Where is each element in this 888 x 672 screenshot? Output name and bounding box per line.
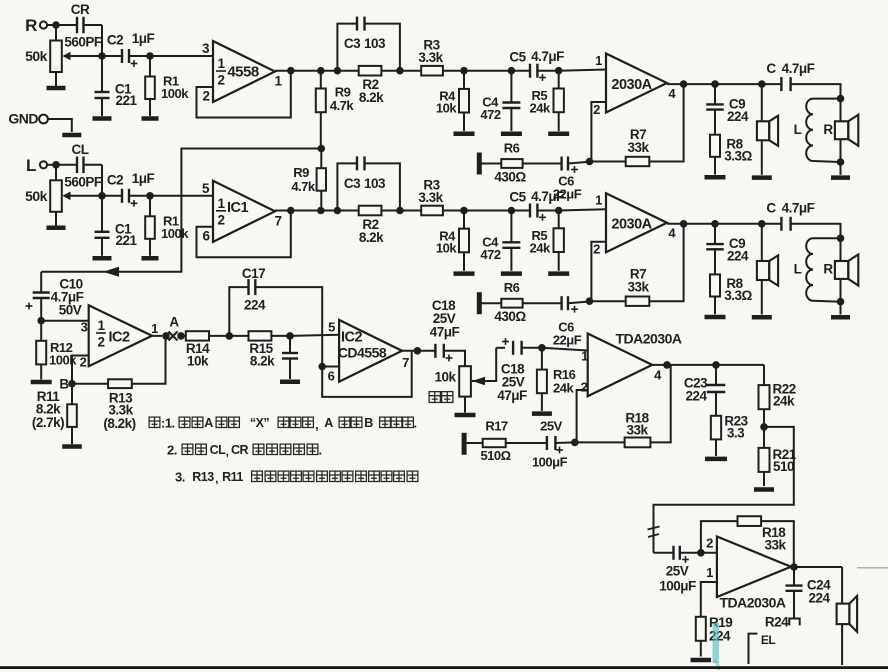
svg-text:“X”: “X”: [250, 416, 270, 430]
svg-text:47μF: 47μF: [497, 388, 527, 403]
svg-text:CL: CL: [210, 443, 227, 457]
svg-text:.: .: [318, 443, 321, 458]
svg-text:C2: C2: [107, 33, 123, 48]
svg-text:24k: 24k: [529, 101, 550, 116]
svg-text:50V: 50V: [59, 303, 82, 318]
svg-text:1: 1: [581, 349, 588, 364]
svg-text:1: 1: [97, 318, 105, 333]
svg-text:24k: 24k: [773, 394, 795, 409]
svg-text:1: 1: [706, 565, 713, 580]
svg-text:L: L: [26, 156, 36, 175]
svg-text:100k: 100k: [161, 86, 189, 101]
svg-text:2: 2: [217, 73, 224, 88]
svg-text:C5: C5: [509, 50, 526, 65]
svg-text:R: R: [823, 122, 833, 137]
svg-text:C: C: [766, 201, 776, 216]
svg-text:1μF: 1μF: [132, 171, 155, 186]
svg-text:,: ,: [226, 445, 229, 459]
svg-text:R: R: [25, 16, 37, 35]
svg-text:24k: 24k: [553, 381, 574, 396]
svg-text:1: 1: [217, 196, 225, 211]
svg-text:33k: 33k: [765, 538, 787, 553]
svg-text:3.3k: 3.3k: [418, 190, 443, 205]
svg-text:EL: EL: [761, 633, 776, 647]
svg-text:4.7k: 4.7k: [291, 179, 316, 194]
svg-text:25V: 25V: [666, 564, 689, 579]
svg-text:4.7μF: 4.7μF: [782, 201, 815, 216]
svg-text:CL: CL: [72, 142, 89, 157]
svg-text:430Ω: 430Ω: [494, 170, 526, 185]
svg-text:R13: R13: [192, 470, 214, 484]
svg-text:24k: 24k: [529, 240, 550, 255]
svg-text:3.3Ω: 3.3Ω: [724, 288, 752, 303]
svg-text:4.7μF: 4.7μF: [531, 189, 564, 204]
svg-text:25V: 25V: [540, 419, 562, 434]
svg-text:103: 103: [364, 36, 386, 51]
svg-text:R11: R11: [222, 470, 243, 484]
svg-text:B: B: [59, 377, 69, 392]
svg-text:5: 5: [202, 181, 210, 196]
svg-text:C3: C3: [344, 36, 361, 51]
svg-text:IC2: IC2: [108, 330, 130, 346]
svg-text:C3: C3: [344, 176, 361, 191]
svg-text:472: 472: [480, 107, 500, 122]
svg-text:(8.2k): (8.2k): [103, 416, 135, 431]
svg-text:TDA2030A: TDA2030A: [719, 595, 785, 611]
svg-text:224: 224: [685, 389, 707, 404]
svg-text:TDA2030A: TDA2030A: [615, 331, 681, 347]
svg-text:4.7μF: 4.7μF: [531, 49, 564, 64]
svg-text:3: 3: [202, 41, 210, 56]
svg-text:10k: 10k: [434, 370, 456, 385]
svg-text:10k: 10k: [436, 240, 457, 255]
svg-text:224: 224: [727, 109, 749, 124]
svg-text:2030A: 2030A: [611, 217, 652, 233]
svg-text:CR: CR: [231, 443, 249, 457]
svg-text:1: 1: [595, 53, 602, 68]
svg-text:3: 3: [81, 320, 88, 335]
svg-text:1: 1: [595, 193, 602, 208]
svg-text:,: ,: [315, 417, 318, 432]
svg-text:47μF: 47μF: [430, 325, 460, 340]
svg-text:8.2k: 8.2k: [250, 354, 275, 369]
svg-text:A: A: [324, 416, 333, 430]
svg-text:R9: R9: [293, 165, 309, 180]
svg-text:472: 472: [480, 247, 500, 262]
svg-text:C: C: [766, 61, 776, 76]
svg-text:2: 2: [581, 380, 588, 395]
svg-text:2: 2: [202, 89, 209, 104]
svg-text:(2.7k): (2.7k): [32, 415, 64, 430]
svg-text:4.7k: 4.7k: [330, 98, 355, 113]
svg-text:2: 2: [217, 212, 224, 227]
svg-text:L: L: [794, 122, 802, 137]
svg-text:100k: 100k: [161, 226, 189, 241]
svg-text:1: 1: [151, 321, 158, 336]
svg-text:100μF: 100μF: [532, 455, 568, 470]
svg-text:100μF: 100μF: [659, 579, 696, 594]
svg-text:8.2k: 8.2k: [359, 90, 384, 105]
svg-text:33k: 33k: [627, 140, 649, 155]
svg-text:R17: R17: [485, 419, 508, 434]
svg-text:R6: R6: [504, 141, 520, 156]
svg-text:.: .: [413, 416, 416, 431]
svg-text:430Ω: 430Ω: [494, 309, 526, 324]
svg-text:33k: 33k: [627, 280, 649, 295]
svg-text:560PF: 560PF: [64, 174, 102, 189]
svg-text:C17: C17: [242, 266, 265, 281]
svg-text:6: 6: [328, 369, 335, 384]
svg-text:2: 2: [593, 102, 600, 117]
svg-text:224: 224: [808, 591, 830, 606]
svg-text:CD4558: CD4558: [338, 345, 387, 361]
svg-text:224: 224: [727, 249, 749, 264]
svg-text:3.3: 3.3: [727, 426, 745, 441]
svg-text::1.: :1.: [161, 416, 175, 431]
svg-text:1: 1: [217, 56, 225, 71]
svg-text:510Ω: 510Ω: [480, 448, 510, 463]
svg-text:IC2: IC2: [341, 330, 363, 346]
svg-text:3.3k: 3.3k: [418, 50, 443, 65]
svg-text:1: 1: [274, 74, 282, 89]
svg-text:2: 2: [706, 536, 713, 551]
svg-text:50k: 50k: [25, 188, 48, 204]
svg-text:4558: 4558: [227, 64, 259, 81]
svg-text:7: 7: [274, 213, 281, 228]
svg-text:R24: R24: [765, 615, 789, 630]
svg-text:R: R: [823, 262, 833, 277]
svg-text:33k: 33k: [626, 423, 648, 438]
svg-text:L: L: [794, 262, 802, 277]
svg-text:50k: 50k: [25, 48, 48, 64]
svg-text:3.: 3.: [175, 470, 185, 485]
svg-text:2: 2: [80, 355, 87, 370]
svg-text:2.: 2.: [167, 443, 177, 458]
svg-text:2030A: 2030A: [611, 77, 652, 93]
svg-text:R6: R6: [504, 280, 520, 295]
svg-text:22μF: 22μF: [553, 333, 582, 348]
svg-text:221: 221: [115, 93, 137, 108]
svg-text:A: A: [169, 315, 179, 330]
svg-text:103: 103: [364, 176, 386, 191]
svg-text:2: 2: [593, 242, 600, 257]
svg-text:CR: CR: [71, 2, 90, 17]
svg-text:560PF: 560PF: [64, 35, 102, 50]
svg-text:2: 2: [97, 335, 104, 350]
svg-text:3.3Ω: 3.3Ω: [724, 149, 752, 164]
svg-text:C2: C2: [107, 172, 123, 187]
svg-text:6: 6: [202, 228, 210, 243]
svg-text:,: ,: [215, 472, 218, 486]
svg-text:A: A: [204, 416, 213, 430]
svg-text:7: 7: [402, 355, 409, 370]
svg-text:10k: 10k: [436, 101, 457, 116]
svg-text:GND: GND: [8, 111, 38, 127]
svg-text:C5: C5: [509, 189, 526, 204]
svg-text:5: 5: [328, 320, 335, 335]
svg-text:B: B: [364, 416, 373, 430]
svg-text:1μF: 1μF: [132, 31, 155, 46]
svg-text:10k: 10k: [187, 354, 209, 369]
svg-text:224: 224: [244, 298, 266, 313]
svg-text:IC1: IC1: [227, 200, 249, 216]
svg-text:4.7μF: 4.7μF: [782, 61, 815, 76]
svg-text:510: 510: [773, 459, 794, 474]
svg-text:8.2k: 8.2k: [359, 230, 384, 245]
svg-text:224: 224: [709, 629, 731, 644]
svg-text:221: 221: [115, 233, 137, 248]
